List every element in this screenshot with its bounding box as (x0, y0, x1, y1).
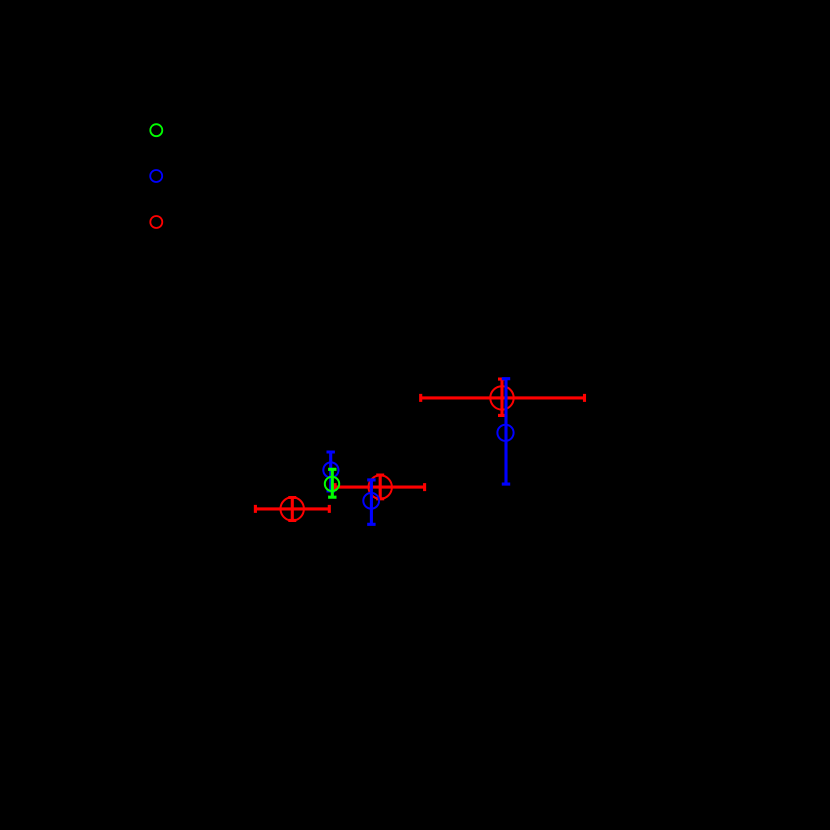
red point 1 circle (281, 497, 304, 520)
blue point 3 y error bar (502, 379, 510, 484)
red point 1 y error bar (288, 498, 296, 521)
blue point 2 circle (363, 493, 379, 509)
red point 2 x error bar (335, 483, 425, 491)
green point circle (325, 477, 339, 491)
legend symbol green circle (150, 124, 162, 136)
blue point 3 circle (497, 425, 513, 441)
red point 3 y error bar (498, 379, 506, 415)
legend symbol blue circle (150, 170, 162, 182)
blue point 2 y error bar (367, 480, 375, 524)
blue point 1 circle (323, 462, 338, 477)
blue point 1 y error bar (327, 452, 335, 491)
red point 2 circle (369, 475, 392, 498)
legend symbol red circle (150, 216, 162, 228)
red point 3 circle (490, 386, 513, 409)
red point 2 y error bar (376, 475, 384, 499)
red point 1 x error bar (255, 505, 329, 513)
green point y error bar (328, 469, 336, 497)
red point 3 x error bar (421, 394, 585, 402)
